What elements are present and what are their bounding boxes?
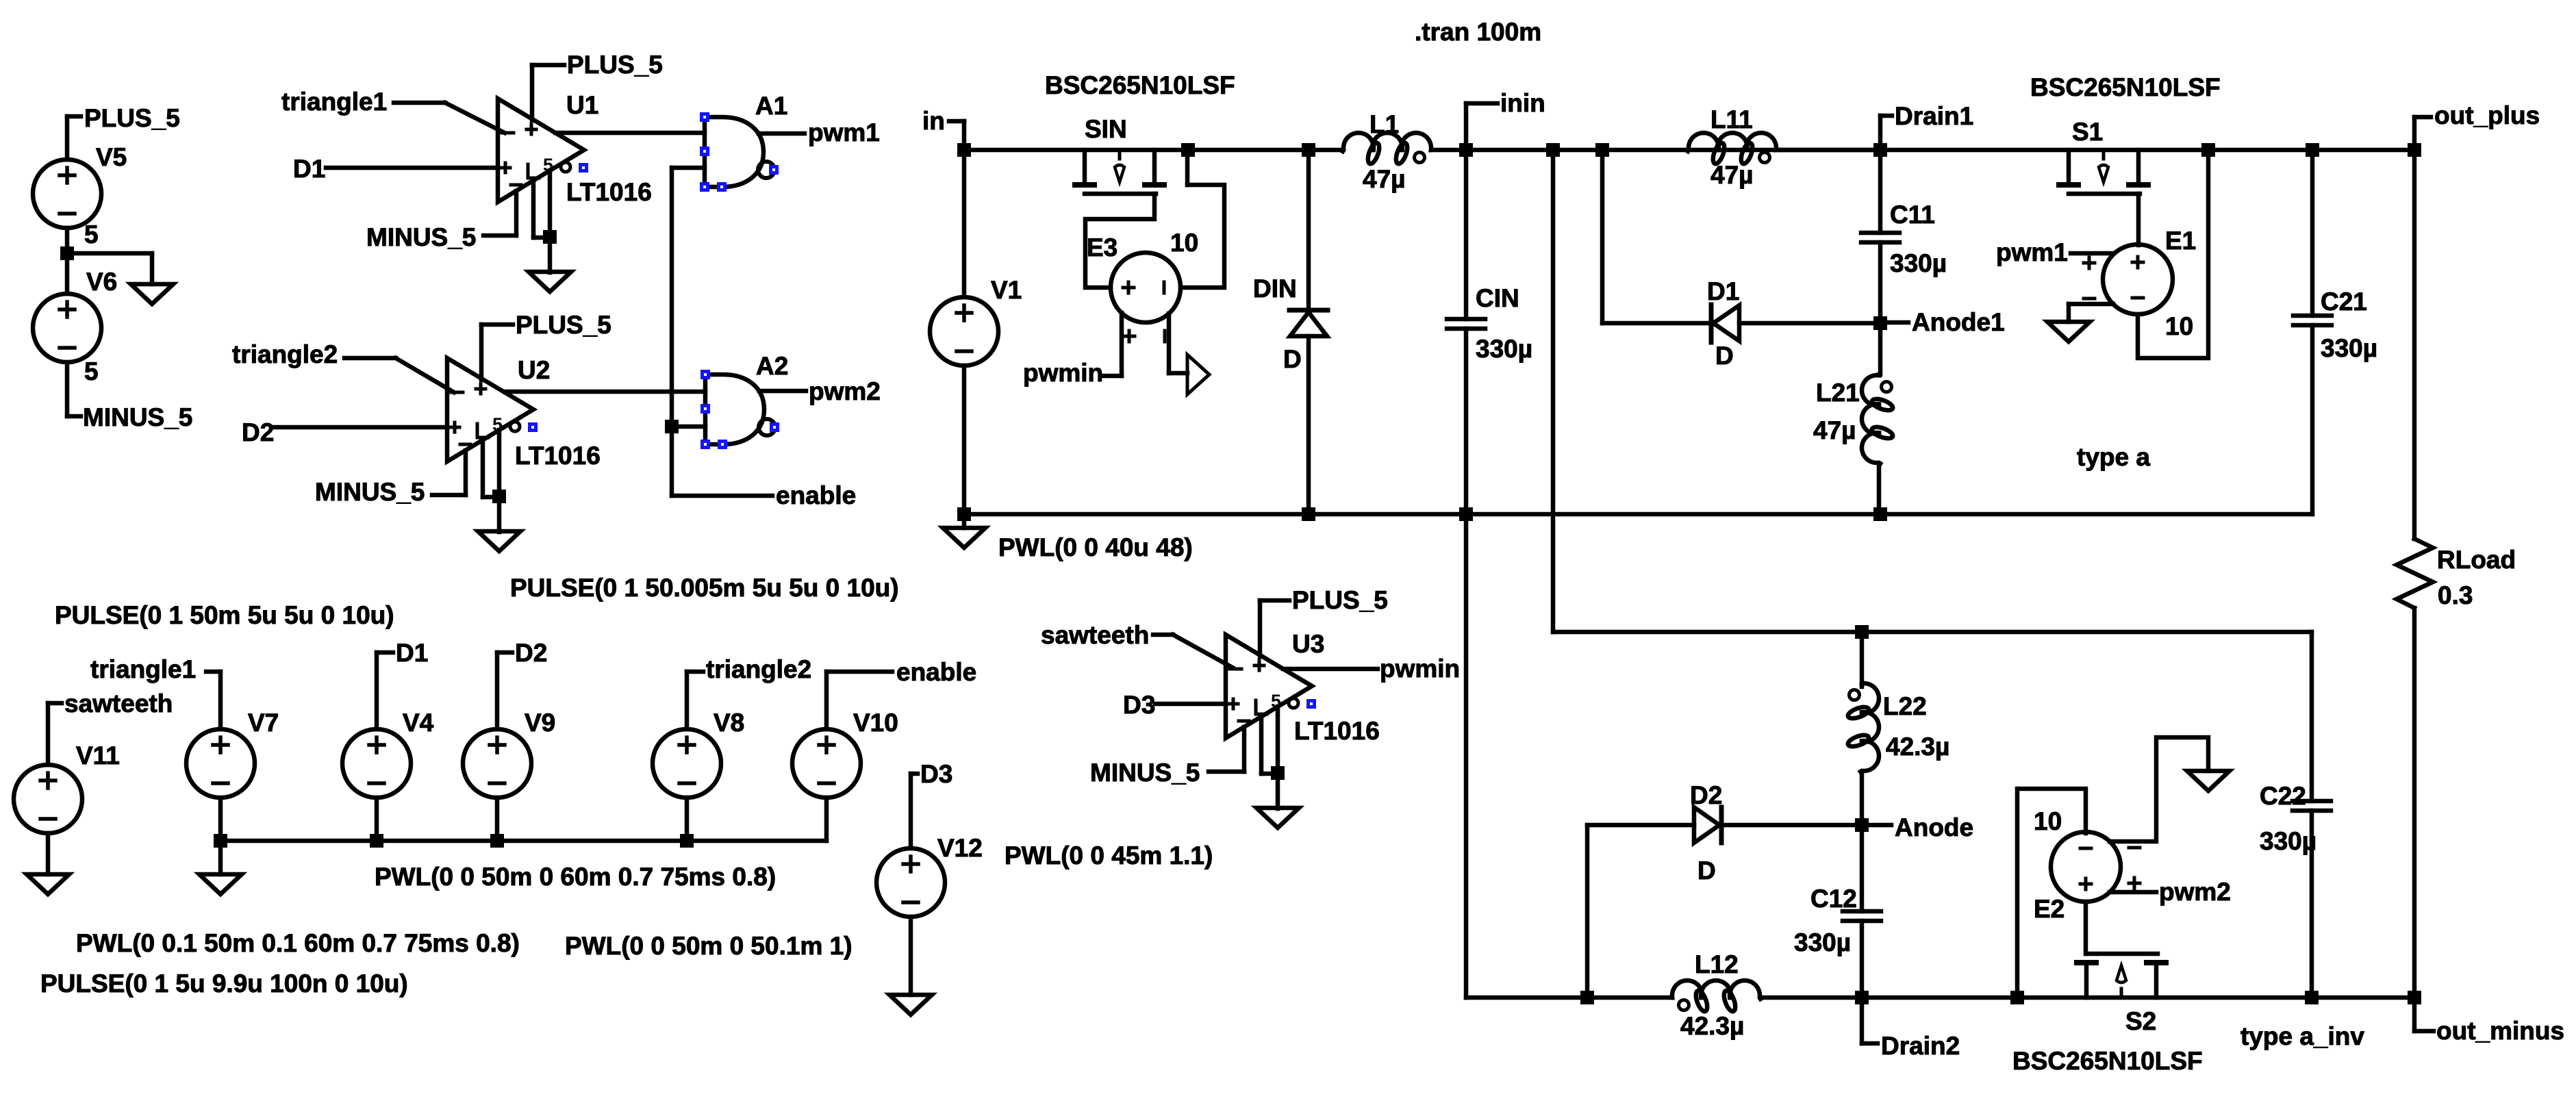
label SIN bbox=[1085, 115, 1127, 143]
capacitor CIN bbox=[1447, 319, 1485, 329]
ground E2 bbox=[2187, 771, 2230, 791]
net label D2 V9 bbox=[515, 639, 547, 667]
junction U3 gnd bbox=[1271, 766, 1285, 780]
wire PLUS_5 stub to V5 bbox=[67, 116, 81, 160]
wire E2 ctrl- to ground bbox=[2110, 737, 2208, 841]
vcvs E1 bbox=[2084, 244, 2173, 314]
svg-text:DIN: DIN bbox=[1253, 275, 1297, 303]
wire MINUS_5 to U1 bbox=[483, 233, 516, 238]
voltage source V9 bbox=[463, 729, 531, 798]
label U1 bbox=[566, 91, 598, 119]
svg-text:BSC265N10LSF: BSC265N10LSF bbox=[1045, 71, 1235, 99]
wire V11 to ground bbox=[46, 833, 51, 874]
wire U1 V- down bbox=[514, 191, 519, 236]
svg-text:PULSE(0 1 5u 9.9u 100n 0 10u): PULSE(0 1 5u 9.9u 100n 0 10u) bbox=[40, 969, 408, 998]
net label triangle2 bbox=[232, 340, 338, 368]
blue pin A2 /out bbox=[770, 422, 779, 432]
svg-text:47µ: 47µ bbox=[1813, 416, 1856, 444]
voltage source V6 bbox=[33, 294, 101, 362]
net label out_minus bbox=[2436, 1017, 2564, 1045]
wire C21 bottom bbox=[2310, 325, 2315, 514]
wire lower rail L12 to Drain2 bbox=[1760, 996, 1862, 1000]
ground U1 bbox=[529, 272, 571, 292]
wire V10 to bus bbox=[824, 798, 829, 841]
label L11 bbox=[1710, 105, 1753, 134]
label L22 bbox=[1883, 692, 1927, 720]
svg-text:5: 5 bbox=[84, 357, 99, 385]
label RLoad bbox=[2437, 546, 2516, 574]
wire top rail C21 to out_plus bbox=[2312, 148, 2414, 153]
value 5 of V5 bbox=[84, 220, 99, 249]
wire U3 out to pwmin bbox=[1283, 667, 1378, 672]
wire CIN top bbox=[1464, 150, 1469, 319]
label type a_inv bbox=[2240, 1022, 2364, 1050]
comparator U2 LT1016 bbox=[447, 358, 533, 461]
wire triangle1 to U1 -in bbox=[394, 103, 505, 133]
label V8 bbox=[714, 709, 744, 737]
wire V1 to bottom rail bbox=[962, 366, 967, 514]
svg-text:MINUS_5: MINUS_5 bbox=[315, 478, 425, 506]
svg-text:PLUS_5: PLUS_5 bbox=[84, 104, 180, 132]
wire V8 to bus bbox=[685, 798, 690, 841]
net label pwmin E3 bbox=[1023, 359, 1103, 387]
inductor L12 bbox=[1671, 980, 1760, 1013]
junction CIN bottom bbox=[1459, 507, 1473, 521]
comparator U3 LT1016 bbox=[1226, 635, 1312, 738]
wire CIN column to lower rail bbox=[1466, 514, 1587, 998]
svg-text:C11: C11 bbox=[1890, 201, 1935, 229]
label V12 bbox=[937, 834, 983, 862]
net label MINUS_5 U3 bbox=[1090, 759, 1200, 787]
svg-text:L12: L12 bbox=[1695, 950, 1739, 978]
net label in bbox=[922, 107, 945, 135]
svg-text:L11: L11 bbox=[1710, 105, 1753, 134]
comparator U1 LT1016 bbox=[498, 99, 584, 202]
vcvs E3 bbox=[1111, 253, 1180, 342]
svg-text:pwm2: pwm2 bbox=[2159, 878, 2231, 906]
net label D2 input U2 bbox=[242, 418, 274, 446]
svg-text:U3: U3 bbox=[1292, 630, 1324, 658]
net label D3 V12 bbox=[920, 760, 952, 788]
net label Anode bbox=[1895, 813, 1973, 841]
wire V4 to bus bbox=[375, 798, 379, 841]
net label D3 input U3 bbox=[1123, 691, 1155, 719]
net label Drain1 bbox=[1895, 102, 1973, 130]
net label enable V10 bbox=[896, 658, 976, 686]
svg-text:V7: V7 bbox=[248, 709, 279, 737]
text PWL V1 directive bbox=[998, 533, 1193, 561]
label E1 bbox=[2165, 227, 2196, 255]
wire S1 channel to E1 bbox=[2136, 194, 2141, 245]
wire L1 to CIN node bbox=[1432, 148, 1466, 153]
svg-text:in: in bbox=[922, 107, 945, 135]
wire out_plus to RLoad bbox=[2412, 150, 2417, 539]
wire E3 ctrl+ to pwmin bbox=[1102, 313, 1122, 376]
voltage source V5 bbox=[33, 160, 101, 228]
net label MINUS_5 U1 bbox=[366, 223, 476, 251]
wire L22 top lead bbox=[1860, 632, 1865, 687]
label LT1016 U1 bbox=[566, 178, 652, 206]
svg-text:Drain1: Drain1 bbox=[1895, 102, 1973, 130]
blue pin U1 /out bbox=[579, 163, 588, 173]
label S1 bbox=[2072, 118, 2103, 146]
value 330u of CIN bbox=[1476, 335, 1532, 363]
value 10 of E3 bbox=[1170, 229, 1198, 257]
svg-text:0.3: 0.3 bbox=[2438, 581, 2473, 609]
wire out_plus stub bbox=[2414, 117, 2431, 150]
wire enable to A2 in4 bbox=[672, 424, 705, 429]
inductor L21 bbox=[1862, 375, 1894, 464]
diode D1 bbox=[1711, 305, 1739, 342]
wire D1 label to V4 bbox=[377, 652, 393, 729]
ground V5/V6 bbox=[131, 284, 173, 304]
wire inin stub bbox=[1466, 103, 1498, 150]
svg-text:LT1016: LT1016 bbox=[1294, 717, 1380, 745]
label A2 bbox=[756, 352, 788, 380]
ground U2 bbox=[478, 531, 520, 551]
value 330u of C11 bbox=[1890, 249, 1947, 277]
svg-text:V9: V9 bbox=[525, 709, 555, 737]
svg-text:D1: D1 bbox=[1707, 277, 1739, 305]
junction E2 left bbox=[2010, 991, 2024, 1004]
svg-text:D3: D3 bbox=[920, 760, 952, 788]
blue pin A1 /out bbox=[769, 165, 779, 175]
wire U2 gnd pin down bbox=[497, 430, 502, 532]
svg-text:.tran 100m: .tran 100m bbox=[1415, 18, 1541, 46]
svg-text:PWL(0 0 40u 48): PWL(0 0 40u 48) bbox=[998, 533, 1193, 561]
wire top rail Drain1 to S1 bbox=[1880, 148, 2208, 153]
svg-text:D: D bbox=[1283, 345, 1302, 373]
svg-text:type a_inv: type a_inv bbox=[2240, 1022, 2364, 1050]
label C12 bbox=[1810, 885, 1857, 913]
value 330u of C12 bbox=[1794, 928, 1851, 956]
label type a bbox=[2077, 443, 2150, 471]
label E3 bbox=[1087, 233, 1117, 262]
net label Drain2 bbox=[1881, 1032, 1960, 1060]
wire D1 wire left bbox=[1602, 321, 1709, 326]
junction V8 bus bbox=[680, 834, 694, 848]
junction CIN top bbox=[1459, 143, 1473, 157]
wire E1 out to rail right bbox=[2138, 150, 2208, 358]
svg-text:BSC265N10LSF: BSC265N10LSF bbox=[2012, 1047, 2203, 1075]
label BSC265N10LSF SIN bbox=[1045, 71, 1235, 99]
wire A2 out to pwm2 bbox=[759, 389, 806, 394]
label BSC265N10LSF S1 bbox=[2030, 73, 2221, 101]
net label out_plus bbox=[2434, 101, 2540, 129]
wire U2 LE down bbox=[483, 440, 499, 497]
wire lower rail C22 to out_minus bbox=[2312, 996, 2414, 1000]
junction U1 gnd bbox=[543, 230, 557, 244]
label U2 bbox=[518, 356, 550, 384]
junction in top rail bbox=[957, 143, 971, 157]
wire SIN channel to E3 left bbox=[1085, 194, 1154, 288]
svg-text:triangle2: triangle2 bbox=[232, 340, 338, 368]
wire E2 ctrl+ to pwm2 bbox=[2110, 890, 2156, 895]
wire V12 to ground bbox=[909, 917, 913, 995]
value 330u of C22 bbox=[2260, 827, 2316, 855]
text .tran directive bbox=[1415, 18, 1541, 46]
wire C11 top bbox=[1878, 150, 1883, 233]
svg-text:L22: L22 bbox=[1883, 692, 1927, 720]
text PULSE U1 directive bbox=[55, 601, 394, 629]
wire C12 top bbox=[1860, 825, 1865, 911]
wire U1 gnd pin down bbox=[548, 170, 553, 272]
svg-text:pwm1: pwm1 bbox=[1996, 238, 2068, 266]
svg-text:A2: A2 bbox=[756, 352, 788, 380]
net label D1 V4 bbox=[396, 639, 428, 667]
svg-text:S2: S2 bbox=[2125, 1007, 2156, 1035]
svg-text:enable: enable bbox=[776, 481, 856, 509]
wire U3 LE down bbox=[1261, 717, 1278, 774]
svg-text:S1: S1 bbox=[2072, 118, 2103, 146]
wire V5 bottom to node bbox=[65, 228, 70, 253]
value 42.3u of L22 bbox=[1886, 733, 1949, 761]
wire Anode1 to L21 bbox=[1878, 323, 1883, 375]
wire lower rail D2 to L12 bbox=[1587, 996, 1671, 1000]
svg-text:pwmin: pwmin bbox=[1380, 655, 1460, 683]
net label MINUS_5 U2 bbox=[315, 478, 425, 506]
label E2 bbox=[2034, 895, 2064, 923]
svg-text:type a: type a bbox=[2077, 443, 2150, 471]
wire D2 column down bbox=[1585, 825, 1590, 998]
wire sawteeth to U3 -in bbox=[1153, 635, 1233, 668]
junction SIN drain rail bbox=[1181, 143, 1195, 157]
value 47u of L11 bbox=[1710, 161, 1753, 189]
svg-text:pwm1: pwm1 bbox=[808, 118, 880, 147]
blue pin A1 in3 bbox=[700, 147, 709, 156]
blue pin A1 in5 bbox=[700, 182, 709, 192]
blue pin A2 com bbox=[718, 440, 727, 449]
wire CIN bottom bbox=[1464, 329, 1469, 514]
blue pin A2 in5 bbox=[700, 440, 710, 449]
junction C21 top bbox=[2306, 143, 2319, 157]
node junction V5/V6 bbox=[60, 246, 74, 260]
ground V1 bbox=[943, 528, 985, 548]
svg-text:out_plus: out_plus bbox=[2434, 101, 2540, 129]
svg-text:42.3µ: 42.3µ bbox=[1886, 733, 1949, 761]
wire C22 column top bbox=[2310, 632, 2314, 801]
label V10 bbox=[853, 709, 898, 737]
wire V6 bottom to MINUS_5 bbox=[67, 362, 81, 416]
ground U3 bbox=[1257, 808, 1299, 828]
wire D2 to U2 +in bbox=[273, 425, 447, 430]
svg-text:V8: V8 bbox=[714, 709, 744, 737]
wire C11 bottom to Anode1 bbox=[1878, 242, 1883, 323]
svg-text:E3: E3 bbox=[1087, 233, 1117, 262]
junction out_plus bbox=[2408, 143, 2421, 157]
net label PLUS_5 bbox=[84, 104, 180, 132]
text PWL V12 directive bbox=[1005, 841, 1213, 870]
wire pwm1 to E1 ctrl+ bbox=[2071, 251, 2112, 256]
blue pin U3 /out bbox=[1306, 699, 1316, 709]
value 42.3u of L12 bbox=[1680, 1012, 1744, 1040]
wire junction to V6 top bbox=[65, 253, 70, 294]
svg-text:sawteeth: sawteeth bbox=[64, 689, 173, 718]
svg-text:V10: V10 bbox=[853, 709, 898, 737]
wire L11 to Drain1 bbox=[1777, 148, 1880, 153]
wire DIN top bbox=[1306, 150, 1311, 310]
svg-text:PWL(0 0 50m 0 50.1m 1): PWL(0 0 50m 0 50.1m 1) bbox=[565, 932, 853, 960]
wire enable column to A1 in4 bbox=[672, 166, 705, 170]
svg-text:C22: C22 bbox=[2260, 782, 2306, 810]
nand gate A1 bbox=[705, 115, 774, 189]
wire U1 out to A1 bbox=[555, 131, 705, 136]
text PULSE V11 directive bbox=[40, 969, 408, 998]
blue pin A2 in1 bbox=[700, 370, 710, 379]
wire junction to ground arm bbox=[67, 253, 152, 284]
label LT1016 U3 bbox=[1294, 717, 1380, 745]
wire top rail SIN to DIN bbox=[1188, 148, 1309, 153]
mosfet S2 bbox=[2077, 954, 2166, 998]
ground V11 bbox=[27, 874, 69, 894]
blue pin U2 /out bbox=[528, 422, 538, 432]
wire ground bus bbox=[220, 839, 826, 844]
text PWL V10 directive bbox=[565, 932, 853, 960]
ground V7 bbox=[199, 874, 242, 894]
svg-text:PLUS_5: PLUS_5 bbox=[1292, 586, 1388, 614]
voltage source V8 bbox=[653, 729, 721, 798]
voltage source V12 bbox=[876, 848, 945, 917]
value 0.3 of RLoad bbox=[2438, 581, 2473, 609]
svg-text:PULSE(0 1 50.005m 5u 5u 0 10u): PULSE(0 1 50.005m 5u 5u 0 10u) bbox=[510, 574, 899, 602]
wire E2 left loop bbox=[2017, 789, 2086, 998]
wire V9 to bus bbox=[495, 798, 500, 841]
wire C12 bottom bbox=[1860, 921, 1865, 998]
wire PLUS_5 to U1 V+ bbox=[532, 65, 564, 121]
label L21 bbox=[1816, 379, 1860, 407]
net label inin bbox=[1500, 89, 1545, 117]
wire MINUS_5 to U2 bbox=[432, 493, 466, 498]
svg-text:U1: U1 bbox=[566, 91, 598, 119]
wire inin2 vertical bbox=[1551, 150, 1556, 632]
wire E3 out to rail bbox=[1180, 150, 1224, 288]
svg-text:triangle1: triangle1 bbox=[281, 88, 387, 116]
net label Anode1 bbox=[1912, 308, 2005, 336]
wire L21 to bottom rail bbox=[1877, 464, 1882, 514]
svg-text:330µ: 330µ bbox=[2260, 827, 2316, 855]
wire top rail in to SIN bbox=[964, 148, 1188, 153]
svg-text:47µ: 47µ bbox=[1710, 161, 1753, 189]
capacitor C11 bbox=[1861, 233, 1899, 242]
label V11 bbox=[76, 741, 120, 770]
blue pin A1 com bbox=[717, 182, 727, 192]
wire enable vertical bbox=[670, 168, 674, 496]
svg-text:V6: V6 bbox=[86, 268, 117, 296]
junction E1 rail bbox=[2201, 143, 2215, 157]
voltage source V1 bbox=[930, 297, 998, 366]
net label MINUS_5 bbox=[83, 403, 192, 431]
junction Drain2 bbox=[1855, 991, 1869, 1004]
junction DIN bottom bbox=[1302, 507, 1315, 521]
svg-text:V4: V4 bbox=[403, 709, 434, 737]
svg-text:PLUS_5: PLUS_5 bbox=[516, 311, 611, 339]
svg-text:A1: A1 bbox=[755, 92, 787, 120]
voltage source V10 bbox=[792, 729, 861, 798]
wire U3 gnd pin down bbox=[1276, 707, 1280, 809]
wire D1 to U1 +in bbox=[326, 166, 498, 170]
svg-text:D: D bbox=[1715, 342, 1734, 370]
wire E1 ctrl- to ground bbox=[2069, 304, 2113, 322]
wire V7 to bus bbox=[218, 798, 223, 841]
junction V7 bus bbox=[214, 834, 227, 848]
svg-text:PLUS_5: PLUS_5 bbox=[567, 51, 663, 79]
junction U2 gnd bbox=[492, 490, 506, 503]
wire triangle2 label to V8 bbox=[687, 672, 703, 729]
label U3 bbox=[1292, 630, 1324, 658]
label C22 bbox=[2260, 782, 2306, 810]
svg-text:330µ: 330µ bbox=[1794, 928, 1851, 956]
wire Anode1 label stub bbox=[1880, 320, 1908, 325]
label L1 bbox=[1369, 110, 1399, 138]
svg-text:D3: D3 bbox=[1123, 691, 1155, 719]
net label sawteeth U3 bbox=[1041, 621, 1149, 649]
wire L22 to Anode bbox=[1860, 772, 1865, 825]
svg-text:U2: U2 bbox=[518, 356, 550, 384]
value 5 of V6 bbox=[84, 357, 99, 385]
label S2 bbox=[2125, 1007, 2156, 1035]
svg-text:pwm2: pwm2 bbox=[809, 377, 881, 405]
wire RLoad to out_minus rail bbox=[2412, 608, 2417, 998]
net label PLUS_5 U2 bbox=[516, 311, 611, 339]
blue pin A1 in1 bbox=[700, 112, 709, 122]
value 10 of E2 bbox=[2034, 807, 2062, 835]
label V4 bbox=[403, 709, 434, 737]
junction D2 column bottom bbox=[1580, 991, 1594, 1004]
junction L22 top bbox=[1855, 625, 1869, 639]
label A1 bbox=[755, 92, 787, 120]
svg-text:enable: enable bbox=[896, 658, 976, 686]
label C21 bbox=[2321, 288, 2367, 316]
net label enable A2 bbox=[776, 481, 856, 509]
svg-text:10: 10 bbox=[2165, 312, 2193, 340]
svg-text:Anode1: Anode1 bbox=[1912, 308, 2005, 336]
wire top rail DIN to L1 bbox=[1309, 148, 1343, 153]
wire inin2 top wire bbox=[1553, 630, 2312, 635]
label V5 bbox=[96, 143, 127, 171]
svg-text:MINUS_5: MINUS_5 bbox=[366, 223, 476, 251]
junction Drain1 bbox=[1873, 143, 1887, 157]
junction Anode bbox=[1855, 818, 1869, 832]
inductor L1 bbox=[1343, 133, 1432, 165]
vcvs E2 bbox=[2051, 832, 2140, 902]
svg-text:V11: V11 bbox=[76, 741, 120, 770]
svg-text:out_minus: out_minus bbox=[2436, 1017, 2564, 1045]
wire C21 top bbox=[2310, 150, 2315, 316]
wire enable to label bbox=[672, 494, 772, 498]
svg-text:330µ: 330µ bbox=[1476, 335, 1532, 363]
svg-text:CIN: CIN bbox=[1476, 284, 1519, 312]
net label PLUS_5 U3 bbox=[1292, 586, 1388, 614]
wire top rail S1 to C21 bbox=[2208, 148, 2312, 153]
wire A1 out to pwm1 bbox=[759, 131, 805, 136]
junction C22 bottom bbox=[2305, 991, 2319, 1004]
svg-text:V12: V12 bbox=[937, 834, 983, 862]
label V9 bbox=[525, 709, 555, 737]
wire bottom rail bbox=[964, 512, 2312, 517]
wire Anode label stub bbox=[1862, 823, 1891, 828]
junction D1 column top bbox=[1595, 143, 1609, 157]
net label pwm1 A1 bbox=[808, 118, 880, 147]
value 47u of L1 bbox=[1363, 165, 1405, 193]
wire E3 ctrl- to arrow bbox=[1169, 314, 1187, 373]
net label pwm1 E1 bbox=[1996, 238, 2068, 266]
wire MINUS_5 to U3 bbox=[1209, 770, 1244, 774]
wire PLUS_5 to U3 V+ bbox=[1260, 600, 1289, 657]
net label pwmin U3 bbox=[1380, 655, 1460, 683]
wire D3 label to V12 bbox=[911, 774, 918, 848]
svg-text:V5: V5 bbox=[96, 143, 127, 171]
svg-text:E1: E1 bbox=[2165, 227, 2196, 255]
